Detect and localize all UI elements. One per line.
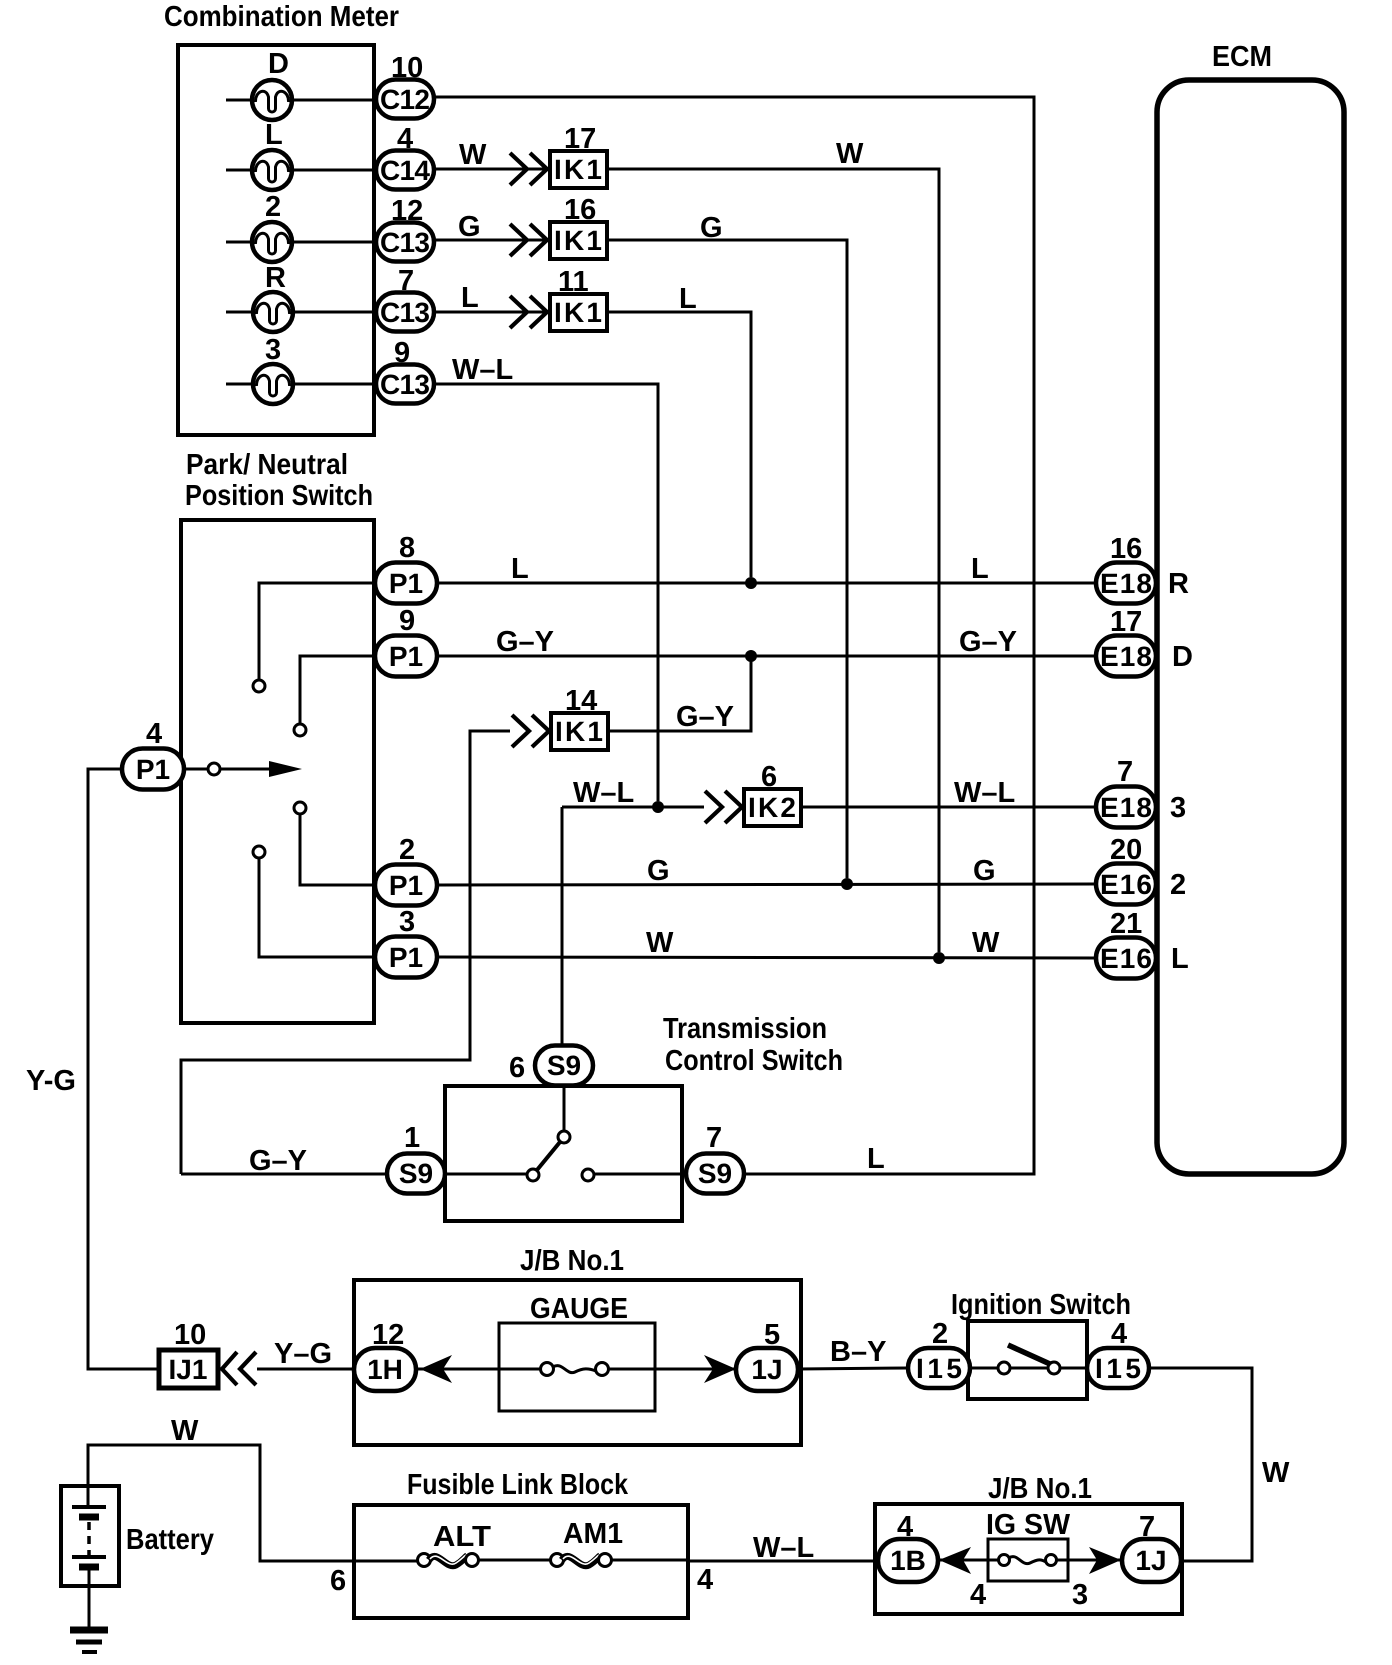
lamp 3 bbox=[226, 364, 377, 404]
svg-text:I15: I15 bbox=[1095, 1353, 1141, 1384]
connector P1 pin 8 bbox=[375, 532, 437, 604]
svg-text:6: 6 bbox=[330, 1565, 346, 1597]
svg-text:1J: 1J bbox=[751, 1354, 782, 1385]
svg-text:E16: E16 bbox=[1100, 869, 1152, 900]
splice IK1 16 bbox=[550, 194, 607, 259]
svg-text:G–Y: G–Y bbox=[959, 626, 1017, 658]
svg-text:3: 3 bbox=[265, 334, 281, 366]
wire C14 to IK1 17 bbox=[434, 168, 548, 171]
svg-text:16: 16 bbox=[1110, 533, 1142, 565]
connector S9 pin 7 bbox=[686, 1122, 744, 1194]
wire IJ1 to 1H bbox=[257, 1368, 356, 1371]
svg-text:IJ1: IJ1 bbox=[169, 1354, 208, 1385]
battery cell plates bbox=[72, 1486, 106, 1586]
splice IK1 17 chevrons bbox=[510, 153, 547, 185]
svg-text:10: 10 bbox=[391, 52, 423, 84]
fusible link AM1 bbox=[551, 1554, 612, 1567]
lamp 2 bbox=[226, 222, 377, 262]
svg-text:C13: C13 bbox=[380, 369, 430, 400]
svg-text:4: 4 bbox=[397, 123, 413, 155]
lamp L bbox=[226, 150, 377, 190]
svg-text:9: 9 bbox=[394, 337, 410, 369]
junction W-L column bbox=[652, 801, 664, 813]
arm left contact bbox=[527, 1169, 539, 1181]
svg-text:W–L: W–L bbox=[452, 354, 513, 386]
switch contact lower 2 bbox=[253, 846, 375, 957]
arrow into 1B bbox=[939, 1547, 971, 1574]
svg-text:G–Y: G–Y bbox=[249, 1145, 307, 1177]
svg-text:S9: S9 bbox=[399, 1158, 433, 1189]
IG SW fuse element bbox=[938, 1555, 1122, 1566]
svg-text:4: 4 bbox=[1111, 1318, 1127, 1350]
connector S9 pin 6 bbox=[509, 1046, 593, 1086]
svg-text:W–L: W–L bbox=[573, 777, 634, 809]
fusible link ALT bbox=[418, 1554, 479, 1567]
splice IK1 17 bbox=[550, 123, 607, 188]
connector 1B pin 4 bbox=[878, 1511, 938, 1582]
junction G-Y column bbox=[745, 650, 757, 662]
svg-text:L: L bbox=[1171, 943, 1189, 975]
svg-text:C13: C13 bbox=[380, 227, 430, 258]
arm right contact bbox=[582, 1169, 594, 1181]
wire AM1 to block edge bbox=[611, 1559, 688, 1562]
park/neutral switch box bbox=[181, 520, 374, 1023]
svg-text:Ignition Switch: Ignition Switch bbox=[951, 1289, 1131, 1321]
wire ALT to AM1 bbox=[478, 1559, 551, 1562]
svg-text:8: 8 bbox=[399, 532, 415, 564]
svg-text:ECM: ECM bbox=[1212, 41, 1272, 73]
svg-text:E18: E18 bbox=[1100, 568, 1152, 599]
svg-text:2: 2 bbox=[399, 834, 415, 866]
wire P1 3 to E16 21 (W) bbox=[437, 957, 1098, 958]
splice IK1 11 chevrons bbox=[510, 296, 547, 328]
svg-text:D: D bbox=[1172, 641, 1193, 673]
ignition right contact bbox=[1048, 1362, 1060, 1374]
connector E18 pin 7 bbox=[1096, 756, 1186, 828]
svg-text:L: L bbox=[511, 553, 529, 585]
arrow into 1J bbox=[704, 1355, 736, 1383]
GAUGE fuse element bbox=[416, 1363, 736, 1376]
GAUGE fuse box bbox=[499, 1323, 655, 1411]
svg-text:IG SW: IG SW bbox=[986, 1509, 1071, 1541]
connector E18 pin 16 bbox=[1096, 533, 1189, 604]
connector I15 pin 4 bbox=[1087, 1318, 1149, 1388]
ignition left contact bbox=[998, 1362, 1010, 1374]
wire G-Y to S9 1 bbox=[181, 1173, 387, 1176]
wire C13 to IK1 16 bbox=[434, 239, 548, 242]
svg-text:Control Switch: Control Switch bbox=[665, 1045, 843, 1077]
connector P1 pin 2 bbox=[375, 834, 437, 906]
connector C13 pin 12 bbox=[376, 195, 434, 262]
svg-text:ALT: ALT bbox=[433, 1521, 491, 1553]
wire P1 9 to E18 17 (G-Y) bbox=[437, 655, 1098, 658]
svg-text:C14: C14 bbox=[380, 155, 430, 186]
svg-text:1H: 1H bbox=[367, 1354, 403, 1385]
svg-text:W–L: W–L bbox=[954, 777, 1015, 809]
switch contact upper 1 bbox=[253, 583, 375, 692]
connector I15 pin 2 bbox=[908, 1318, 970, 1388]
svg-text:S9: S9 bbox=[698, 1158, 732, 1189]
connector C13 pin 7 bbox=[376, 265, 434, 332]
svg-text:2: 2 bbox=[1170, 869, 1186, 901]
svg-text:1B: 1B bbox=[890, 1545, 926, 1576]
wire battery to fusible link bbox=[88, 1445, 418, 1561]
svg-text:10: 10 bbox=[174, 1319, 206, 1351]
wire to IK1 14 from S9 1 branch bbox=[181, 731, 510, 1174]
wire P1 2 to E16 20 (G) bbox=[437, 884, 1098, 885]
connector 1H pin 12 bbox=[354, 1319, 416, 1391]
ground bbox=[70, 1630, 108, 1652]
svg-text:4: 4 bbox=[697, 1564, 713, 1596]
svg-text:W: W bbox=[836, 138, 864, 170]
svg-text:W: W bbox=[1262, 1457, 1290, 1489]
lamp R bbox=[226, 292, 377, 332]
splice IK2 chevrons bbox=[705, 791, 742, 823]
wire C12 to ECM column bbox=[434, 97, 1034, 1174]
splice IK1 14 bbox=[551, 685, 608, 750]
svg-text:E16: E16 bbox=[1100, 943, 1152, 974]
splice IK1 16 chevrons bbox=[510, 224, 547, 256]
svg-text:Y–G: Y–G bbox=[274, 1338, 332, 1370]
splice IK1 11 bbox=[550, 266, 607, 331]
svg-text:L: L bbox=[679, 283, 697, 315]
svg-text:3: 3 bbox=[1072, 1579, 1088, 1611]
svg-text:L: L bbox=[867, 1143, 885, 1175]
svg-text:IK1: IK1 bbox=[554, 154, 602, 185]
wire IK1 16 to G column bbox=[607, 240, 847, 878]
svg-text:2: 2 bbox=[265, 191, 281, 223]
svg-text:GAUGE: GAUGE bbox=[530, 1293, 628, 1325]
svg-text:4: 4 bbox=[970, 1579, 986, 1611]
ECM box bbox=[1157, 80, 1344, 1174]
switch arm bbox=[537, 1142, 560, 1170]
svg-text:W: W bbox=[972, 927, 1000, 959]
svg-text:G: G bbox=[647, 855, 670, 887]
connector P1 pin 9 bbox=[375, 605, 437, 677]
junction L column bbox=[745, 577, 757, 589]
svg-text:3: 3 bbox=[399, 906, 415, 938]
svg-text:G: G bbox=[458, 211, 481, 243]
svg-text:Park/ Neutral: Park/ Neutral bbox=[186, 449, 348, 481]
svg-text:G: G bbox=[700, 212, 723, 244]
svg-text:Transmission: Transmission bbox=[663, 1013, 827, 1045]
junction W column bbox=[933, 952, 945, 964]
wire P1 4 to Y-G column bbox=[88, 769, 158, 1369]
ignition arm bbox=[1008, 1345, 1050, 1364]
svg-text:R: R bbox=[265, 262, 286, 294]
svg-text:1J: 1J bbox=[1135, 1545, 1166, 1576]
svg-text:20: 20 bbox=[1110, 834, 1142, 866]
wire C13 to IK1 11 bbox=[434, 311, 548, 314]
junction G column bbox=[841, 878, 853, 890]
wire 1J to I15 bbox=[798, 1368, 908, 1369]
svg-text:B–Y: B–Y bbox=[830, 1336, 886, 1368]
wire IK2 to E18 7 (W-L) bbox=[801, 806, 1098, 809]
svg-text:1: 1 bbox=[404, 1122, 420, 1154]
IG SW fuse box bbox=[988, 1539, 1068, 1581]
svg-text:J/B No.1: J/B No.1 bbox=[520, 1245, 624, 1277]
svg-text:G–Y: G–Y bbox=[496, 626, 554, 658]
switch arm pivot and arrow bbox=[184, 761, 302, 777]
connector C13 pin 9 bbox=[376, 337, 434, 404]
wire S9 1 to left contact bbox=[442, 1173, 526, 1176]
wire IK1 14 up to G-Y line bbox=[609, 656, 751, 731]
arm top contact bbox=[558, 1131, 570, 1143]
svg-text:4: 4 bbox=[146, 718, 162, 750]
svg-text:Y-G: Y-G bbox=[26, 1065, 76, 1097]
svg-text:W: W bbox=[459, 139, 487, 171]
svg-text:P1: P1 bbox=[389, 641, 423, 672]
svg-text:7: 7 bbox=[1139, 1511, 1155, 1543]
svg-text:9: 9 bbox=[399, 605, 415, 637]
lamp D bbox=[226, 80, 377, 120]
junction block No.1 (IG SW) box bbox=[875, 1504, 1182, 1614]
connector P1 pin 4 bbox=[122, 718, 184, 790]
wire I15 4 to 1J 7 (W) bbox=[1149, 1368, 1252, 1561]
arrow into 1J 7 bbox=[1089, 1547, 1121, 1574]
svg-text:Combination Meter: Combination Meter bbox=[164, 1, 399, 33]
svg-text:Position Switch: Position Switch bbox=[185, 480, 373, 512]
svg-text:R: R bbox=[1168, 568, 1189, 600]
svg-text:L: L bbox=[971, 553, 989, 585]
arrow into 1H bbox=[420, 1355, 452, 1383]
connector C12 pin 10 bbox=[376, 52, 434, 119]
svg-text:J/B No.1: J/B No.1 bbox=[988, 1473, 1092, 1505]
svg-text:G: G bbox=[973, 855, 996, 887]
junction block No.1 box bbox=[354, 1280, 801, 1445]
svg-text:L: L bbox=[461, 282, 479, 314]
svg-text:W: W bbox=[171, 1415, 199, 1447]
wire IK1 11 to L column bbox=[607, 312, 751, 577]
svg-text:E18: E18 bbox=[1100, 641, 1152, 672]
svg-text:IK1: IK1 bbox=[555, 716, 603, 747]
fusible link block box bbox=[354, 1505, 688, 1618]
svg-text:P1: P1 bbox=[389, 568, 423, 599]
svg-text:W: W bbox=[646, 927, 674, 959]
svg-text:2: 2 bbox=[932, 1318, 948, 1350]
svg-text:3: 3 bbox=[1170, 792, 1186, 824]
svg-text:L: L bbox=[265, 119, 283, 151]
svg-text:IK1: IK1 bbox=[554, 297, 602, 328]
connector E18 pin 17 bbox=[1096, 606, 1193, 677]
svg-text:21: 21 bbox=[1110, 908, 1142, 940]
svg-text:IK1: IK1 bbox=[554, 225, 602, 256]
wire S9 6 riser bbox=[561, 807, 564, 1046]
ignition contacts wire bbox=[970, 1367, 1087, 1370]
svg-text:S9: S9 bbox=[547, 1050, 581, 1081]
connector C14 pin 4 bbox=[376, 123, 434, 190]
wire right contact to S9 7 bbox=[595, 1173, 689, 1176]
connector 1J pin 7 bbox=[1122, 1511, 1181, 1582]
combination meter box bbox=[178, 45, 374, 435]
svg-text:4: 4 bbox=[897, 1511, 913, 1543]
svg-text:12: 12 bbox=[372, 1319, 404, 1351]
wire P1 8 to E18 16 (L) bbox=[437, 582, 1098, 585]
svg-text:D: D bbox=[268, 48, 289, 80]
svg-text:17: 17 bbox=[1110, 606, 1142, 638]
wire fusible link to 1B (W-L) bbox=[688, 1560, 878, 1563]
svg-text:P1: P1 bbox=[389, 942, 423, 973]
connector E16 pin 21 bbox=[1096, 908, 1189, 979]
svg-text:7: 7 bbox=[706, 1122, 722, 1154]
battery box bbox=[61, 1486, 119, 1586]
svg-text:E18: E18 bbox=[1100, 792, 1152, 823]
transmission control switch box bbox=[445, 1086, 682, 1221]
svg-text:6: 6 bbox=[509, 1052, 525, 1084]
svg-text:AM1: AM1 bbox=[563, 1518, 623, 1550]
svg-text:Battery: Battery bbox=[126, 1524, 214, 1556]
svg-text:P1: P1 bbox=[389, 870, 423, 901]
connector S9 pin 1 bbox=[387, 1122, 445, 1194]
svg-text:P1: P1 bbox=[136, 754, 170, 785]
connector E16 pin 20 bbox=[1096, 834, 1186, 905]
IJ1 chevrons bbox=[222, 1352, 256, 1385]
splice IK2 6 bbox=[744, 761, 801, 826]
switch contact lower 1 bbox=[294, 802, 375, 885]
svg-text:C13: C13 bbox=[380, 297, 430, 328]
ignition switch box bbox=[968, 1321, 1087, 1399]
svg-text:G–Y: G–Y bbox=[676, 701, 734, 733]
svg-text:C12: C12 bbox=[380, 84, 430, 115]
svg-text:5: 5 bbox=[764, 1319, 780, 1351]
svg-text:7: 7 bbox=[1117, 756, 1133, 788]
wire IK1 17 to W column bbox=[607, 169, 939, 952]
connector 1J pin 5 bbox=[736, 1319, 798, 1391]
connector P1 pin 3 bbox=[375, 906, 437, 978]
wire battery to ground bbox=[88, 1586, 91, 1629]
svg-text:I15: I15 bbox=[916, 1353, 962, 1384]
wire C13 9 W-L down bbox=[434, 384, 658, 801]
svg-text:W–L: W–L bbox=[753, 1532, 814, 1564]
wire W-L to IK2 bbox=[562, 806, 704, 809]
switch contact upper 2 bbox=[294, 656, 375, 736]
svg-text:7: 7 bbox=[398, 265, 414, 297]
wire S9 6 to arm contact bbox=[563, 1086, 566, 1130]
svg-text:12: 12 bbox=[391, 195, 423, 227]
splice IJ1 pin 10 bbox=[159, 1319, 218, 1388]
svg-text:Fusible Link Block: Fusible Link Block bbox=[407, 1469, 629, 1501]
svg-text:IK2: IK2 bbox=[748, 792, 796, 823]
splice IK1 14 chevrons bbox=[512, 715, 549, 747]
